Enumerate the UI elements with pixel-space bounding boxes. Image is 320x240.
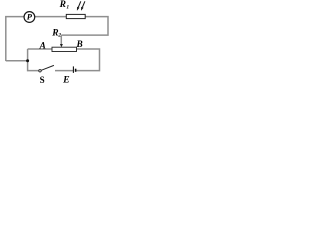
svg-text:1: 1 bbox=[66, 4, 69, 10]
svg-text:B: B bbox=[76, 40, 83, 50]
svg-text:R: R bbox=[59, 0, 66, 10]
svg-text:A: A bbox=[39, 42, 46, 52]
svg-text:E: E bbox=[62, 75, 70, 86]
svg-text:S: S bbox=[40, 75, 45, 85]
svg-text:P: P bbox=[27, 12, 33, 22]
svg-text:2: 2 bbox=[57, 32, 61, 38]
